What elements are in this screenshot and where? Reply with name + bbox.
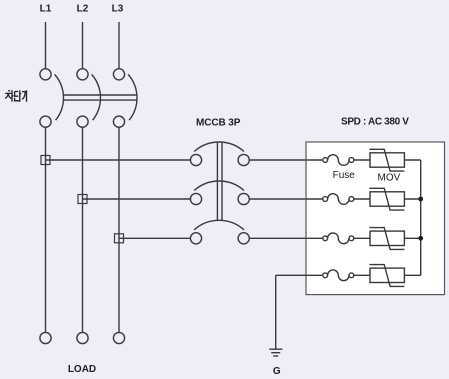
- breaker pole 1 top contact: [40, 69, 51, 80]
- MCCB pole 2 arc: [194, 181, 244, 190]
- wire L2 vertical to load: [82, 127, 84, 332]
- breaker linkage double line: [64, 94, 138, 96]
- breaker pole 2 bottom contact: [77, 116, 88, 127]
- MCCB linkage double line: [216, 143, 218, 221]
- svg-text:L3: L3: [112, 4, 124, 15]
- ground symbol G: [269, 349, 282, 356]
- fuse F1: [323, 155, 370, 166]
- svg-text:L1: L1: [40, 4, 52, 15]
- junction dot row2: [418, 197, 423, 202]
- junction dot row3: [418, 236, 423, 241]
- breaker pole 1 bottom contact: [40, 116, 51, 127]
- MCCB pole 1 arc: [194, 142, 244, 151]
- MCCB pole 1 right contact: [238, 154, 249, 165]
- wire tap L3 to MCCB: [119, 237, 190, 239]
- svg-text:G: G: [273, 366, 281, 377]
- MCCB pole 1 left contact: [190, 154, 201, 165]
- ground wire down: [275, 275, 277, 349]
- breaker pole 2 top contact: [77, 69, 88, 80]
- MCCB pole 2 left contact: [190, 193, 201, 204]
- wire L2 top: [82, 22, 84, 69]
- wire MCCB3 to SPD: [249, 237, 322, 239]
- MOV RV3: [369, 228, 420, 250]
- svg-text:MCCB 3P: MCCB 3P: [196, 118, 241, 129]
- svg-text:Fuse: Fuse: [333, 170, 356, 181]
- SPD row1: wire into box: [306, 159, 323, 161]
- junction square L1: [41, 156, 50, 165]
- svg-text:LOAD: LOAD: [68, 364, 96, 375]
- breaker pole 3 top contact: [113, 69, 124, 80]
- wire L1 top: [45, 22, 47, 69]
- MCCB pole 3 right contact: [238, 233, 249, 244]
- wire tap L2 to MCCB: [83, 198, 191, 200]
- breaker pole 3 blade arc: [128, 74, 137, 120]
- MCCB pole 3 arc: [194, 220, 244, 229]
- junction square L3: [115, 234, 124, 243]
- load terminal L2: [77, 332, 88, 343]
- fuse F3: [323, 233, 370, 244]
- wire L1 vertical to load: [45, 127, 47, 332]
- svg-text:MOV: MOV: [378, 172, 401, 183]
- MOV RV2: [369, 188, 420, 210]
- MCCB pole 2 right contact: [238, 193, 249, 204]
- junction square L2: [78, 195, 87, 204]
- SPD row2: wire into box: [306, 198, 323, 200]
- wire L3 top: [118, 22, 120, 69]
- load terminal L3: [113, 332, 124, 343]
- breaker CB1 label (차단기): [5, 90, 26, 102]
- MOV RV1: [369, 149, 420, 171]
- svg-text:SPD : AC 380 V: SPD : AC 380 V: [341, 117, 409, 128]
- svg-text:L2: L2: [77, 4, 89, 15]
- wire L3 vertical to load: [118, 127, 120, 332]
- fuse F4: [323, 270, 370, 281]
- wire MCCB1 to SPD: [249, 159, 322, 161]
- wire tap L1 to MCCB: [46, 159, 191, 161]
- breaker pole 1 blade arc: [55, 74, 64, 120]
- wire MCCB2 to SPD: [249, 198, 322, 200]
- MCCB pole 3 left contact: [190, 233, 201, 244]
- SPD common bus: [420, 160, 422, 275]
- MOV RV4: [369, 265, 420, 287]
- fuse F2: [323, 194, 370, 205]
- SPD row4: ground wire into box: [276, 274, 323, 276]
- SPD enclosure box: [306, 142, 445, 295]
- breaker pole 2 blade arc: [92, 74, 101, 120]
- load terminal L1: [40, 332, 51, 343]
- SPD row3: wire into box: [306, 237, 323, 239]
- breaker pole 3 bottom contact: [113, 116, 124, 127]
